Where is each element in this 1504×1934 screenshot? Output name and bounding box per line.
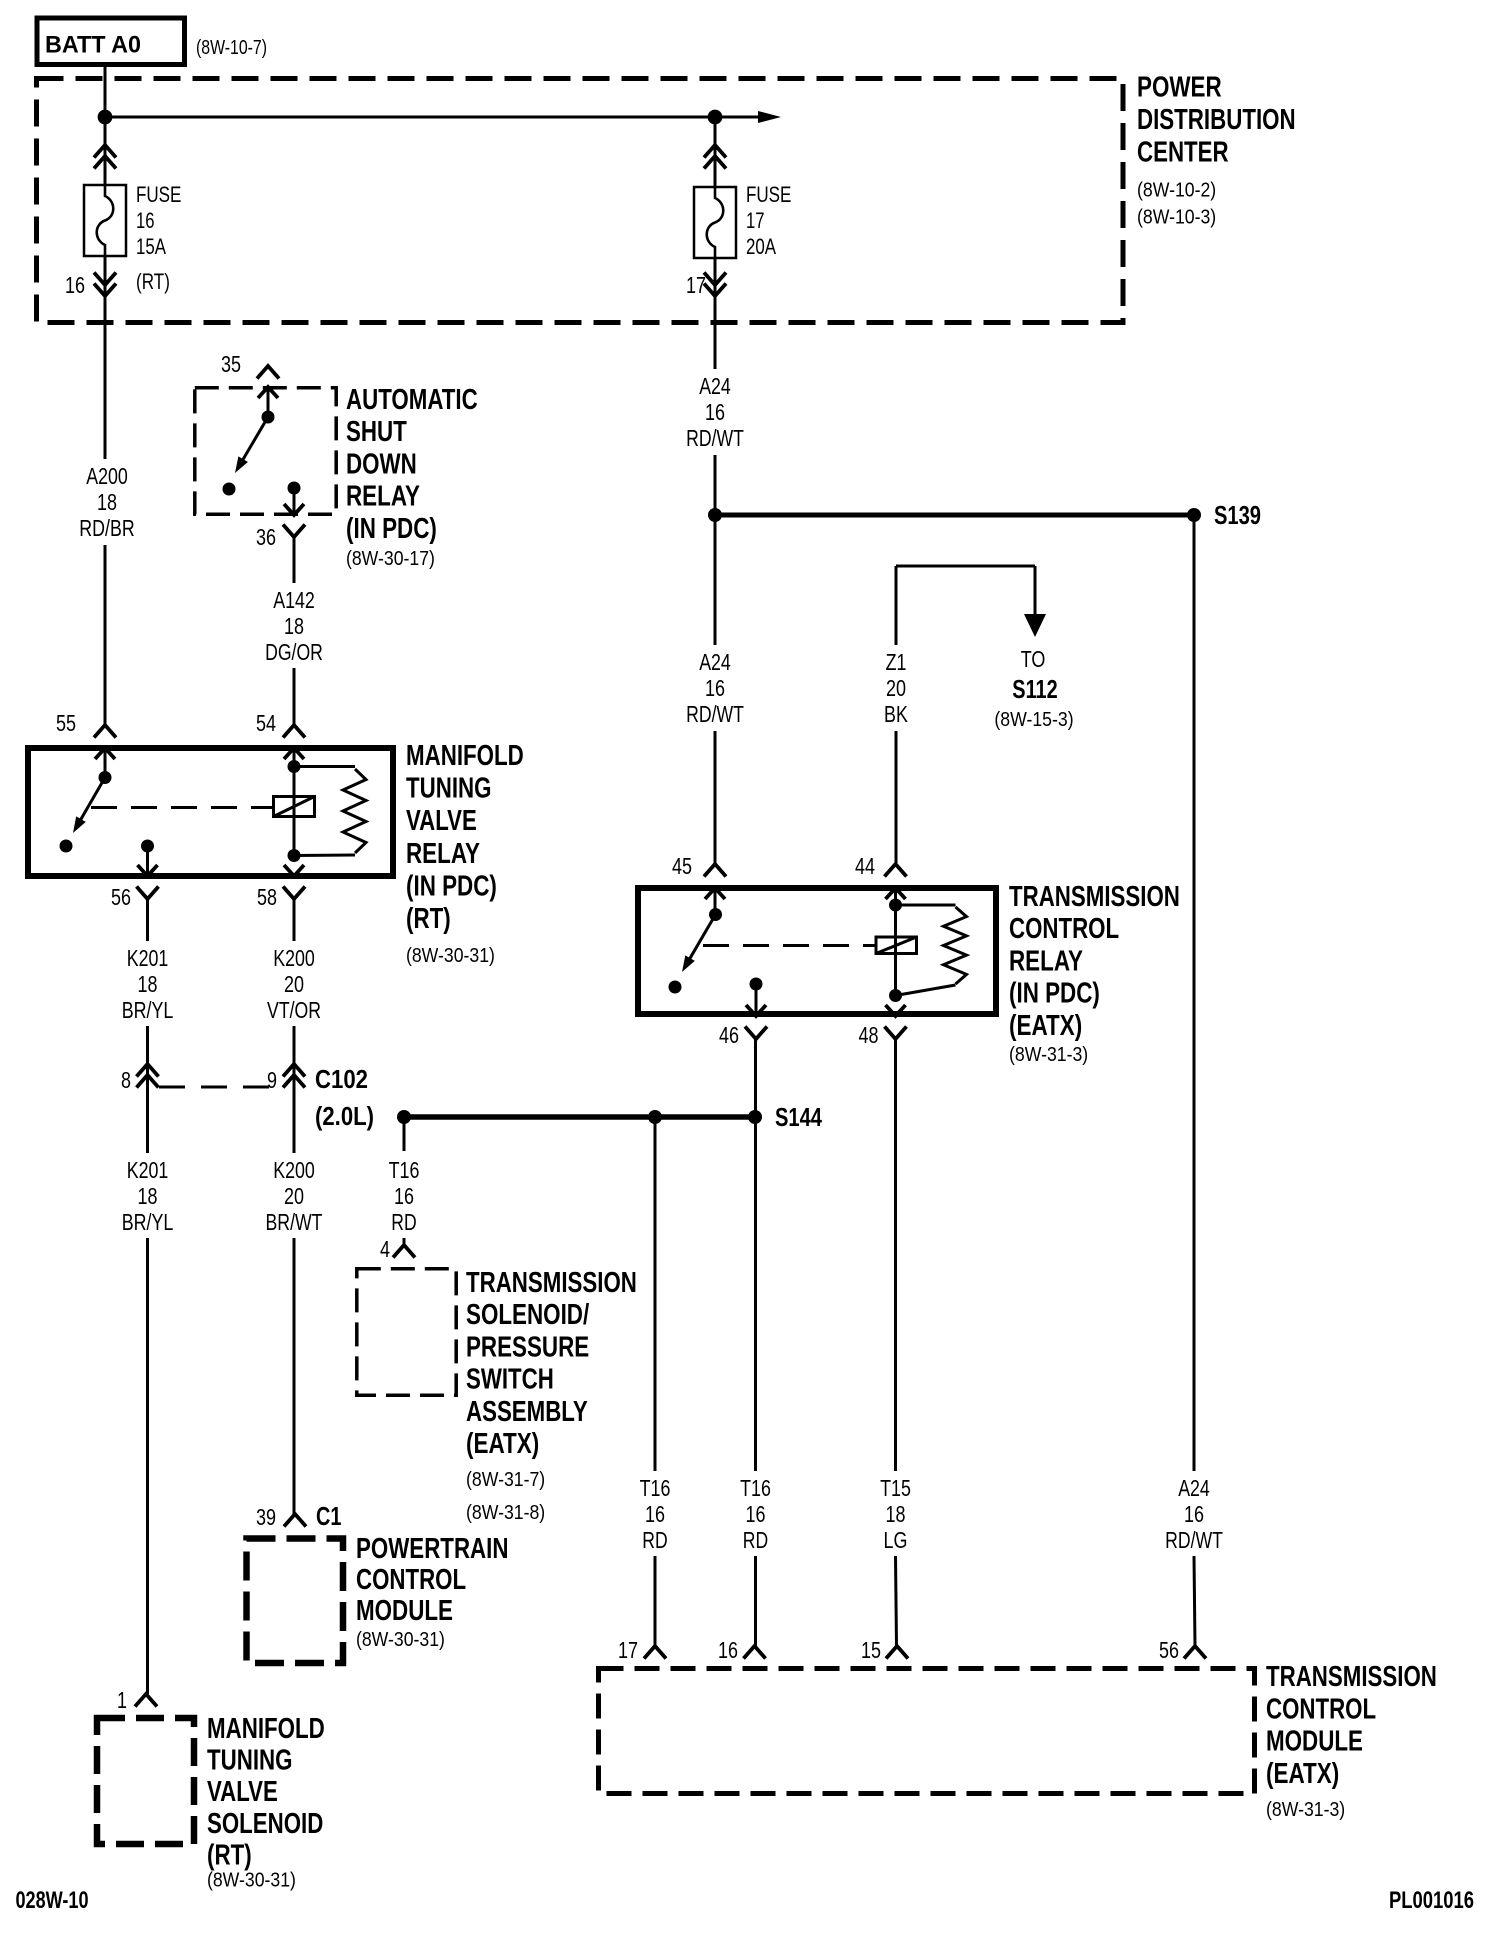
svg-text:A142: A142 bbox=[273, 587, 315, 613]
connector chevrons above fuse 17 bbox=[704, 145, 726, 158]
svg-text:BK: BK bbox=[884, 701, 908, 727]
svg-text:LG: LG bbox=[884, 1527, 908, 1553]
connector chevrons below fuse 16, pin 16 bbox=[104, 256, 107, 459]
pin 56 connector below MTV bbox=[137, 887, 159, 900]
svg-text:16: 16 bbox=[746, 1501, 766, 1527]
wire T16 stub to solenoid assembly bbox=[403, 1117, 406, 1151]
pin 36 connector below ASD bbox=[283, 525, 305, 538]
svg-text:A24: A24 bbox=[699, 649, 731, 675]
svg-text:20: 20 bbox=[886, 675, 906, 701]
ASD pin 36 terminal bbox=[288, 482, 301, 495]
svg-text:36: 36 bbox=[256, 524, 276, 550]
svg-text:K201: K201 bbox=[127, 1157, 169, 1183]
svg-text:028W-10: 028W-10 bbox=[16, 1887, 89, 1914]
svg-text:(2.0L): (2.0L) bbox=[315, 1101, 374, 1131]
svg-text:(8W-30-31): (8W-30-31) bbox=[406, 945, 495, 967]
svg-text:BR/YL: BR/YL bbox=[122, 997, 174, 1023]
TC pin 45 terminal bbox=[705, 888, 725, 899]
svg-text:20: 20 bbox=[284, 1183, 304, 1209]
TC switch lower contact bbox=[669, 981, 682, 994]
svg-text:(8W-31-7): (8W-31-7) bbox=[466, 1469, 545, 1491]
svg-text:DISTRIBUTION: DISTRIBUTION bbox=[1137, 104, 1296, 136]
svg-text:MANIFOLD: MANIFOLD bbox=[207, 1713, 325, 1745]
ASD switch arm bbox=[238, 417, 268, 468]
svg-text:(EATX): (EATX) bbox=[1009, 1010, 1082, 1042]
connector C102 pin 8 bbox=[137, 1064, 159, 1077]
node S144 right bbox=[748, 1110, 762, 1124]
MTV switch lower contact bbox=[60, 840, 73, 853]
svg-text:18: 18 bbox=[97, 489, 117, 515]
svg-text:PRESSURE: PRESSURE bbox=[466, 1331, 589, 1363]
svg-text:1: 1 bbox=[117, 1687, 127, 1713]
svg-text:CONTROL: CONTROL bbox=[356, 1564, 466, 1596]
svg-text:(8W-31-3): (8W-31-3) bbox=[1009, 1044, 1088, 1066]
svg-text:16: 16 bbox=[1184, 1501, 1204, 1527]
svg-text:MODULE: MODULE bbox=[356, 1595, 453, 1627]
svg-text:MODULE: MODULE bbox=[1266, 1726, 1363, 1758]
svg-text:RD/WT: RD/WT bbox=[1165, 1527, 1223, 1553]
svg-text:(8W-30-31): (8W-30-31) bbox=[356, 1629, 445, 1651]
svg-text:T16: T16 bbox=[640, 1475, 671, 1501]
C102 mating dashed line bbox=[159, 1086, 282, 1089]
Powertrain Control Module dashed box bbox=[247, 1539, 344, 1664]
pin 58 connector below MTV bbox=[283, 887, 305, 900]
svg-text:18: 18 bbox=[886, 1501, 906, 1527]
Manifold Tuning Valve relay box bbox=[28, 748, 393, 876]
svg-text:(RT): (RT) bbox=[406, 903, 451, 935]
node at battery bus bbox=[98, 110, 113, 125]
svg-text:C1: C1 bbox=[316, 1501, 341, 1531]
ASD relay dashed box bbox=[195, 388, 336, 514]
splice S139 bbox=[708, 508, 722, 522]
pin 4 connector bbox=[393, 1245, 415, 1258]
ASD pin 35 terminal bbox=[258, 387, 278, 398]
arrow continuation right bbox=[758, 111, 781, 123]
svg-text:K200: K200 bbox=[273, 945, 315, 971]
svg-text:BATT A0: BATT A0 bbox=[45, 32, 141, 59]
svg-text:16: 16 bbox=[718, 1637, 738, 1663]
wire A200 to MTV relay pin 55 bbox=[104, 545, 107, 725]
connector C102 pin 9 bbox=[283, 1064, 305, 1077]
svg-text:K200: K200 bbox=[273, 1157, 315, 1183]
TC pin 48 terminal bbox=[886, 1005, 906, 1016]
svg-text:BR/YL: BR/YL bbox=[122, 1209, 174, 1235]
svg-text:56: 56 bbox=[111, 884, 131, 910]
svg-text:56: 56 bbox=[1159, 1637, 1179, 1663]
svg-text:(8W-30-31): (8W-30-31) bbox=[207, 1869, 296, 1891]
svg-text:AUTOMATIC: AUTOMATIC bbox=[346, 384, 478, 416]
svg-text:(8W-10-7): (8W-10-7) bbox=[196, 37, 267, 59]
svg-text:BR/WT: BR/WT bbox=[266, 1209, 323, 1235]
svg-text:18: 18 bbox=[284, 613, 304, 639]
TC coil link dashed bbox=[703, 944, 875, 947]
svg-text:44: 44 bbox=[855, 853, 875, 879]
TC coil suppression resistor bbox=[896, 904, 956, 907]
Transmission Control Module dashed box bbox=[599, 1669, 1255, 1794]
svg-text:CONTROL: CONTROL bbox=[1266, 1693, 1376, 1725]
svg-text:RELAY: RELAY bbox=[346, 481, 420, 513]
svg-text:(IN PDC): (IN PDC) bbox=[1009, 978, 1100, 1010]
svg-text:MANIFOLD: MANIFOLD bbox=[406, 740, 524, 772]
MTV relay coil bbox=[274, 797, 315, 817]
wire pin46 down through S144 to TCM pin 16 bbox=[754, 1039, 757, 1471]
svg-text:POWER: POWER bbox=[1137, 72, 1222, 104]
svg-text:15A: 15A bbox=[136, 234, 166, 259]
MTV coil suppression resistor bbox=[294, 765, 355, 768]
svg-text:(8W-10-2): (8W-10-2) bbox=[1137, 180, 1216, 202]
wire from fuse 17 down bbox=[714, 117, 717, 187]
svg-text:A200: A200 bbox=[86, 463, 128, 489]
svg-text:16: 16 bbox=[645, 1501, 665, 1527]
svg-text:4: 4 bbox=[380, 1236, 390, 1262]
wire K200 upper bbox=[293, 899, 296, 941]
pin 46 connector below TC relay bbox=[745, 1027, 767, 1040]
wire A24 from S139 to TCM pin 56 bbox=[1193, 515, 1196, 1471]
connector chevrons below fuse 17, pin 17 bbox=[714, 258, 717, 369]
TC pin 46 terminal bbox=[750, 978, 763, 991]
svg-text:(EATX): (EATX) bbox=[1266, 1758, 1339, 1790]
MTV switch arm bbox=[76, 778, 105, 828]
arrow to S112 bbox=[1024, 614, 1046, 637]
svg-text:RD/BR: RD/BR bbox=[79, 515, 134, 541]
svg-text:CENTER: CENTER bbox=[1137, 137, 1229, 169]
MTV pin 54 terminal bbox=[284, 748, 304, 759]
wire T15 pin48 to TCM pin 15 bbox=[894, 1039, 897, 1471]
ASD switch lower contact bbox=[223, 483, 236, 496]
splice S144 bus bbox=[404, 1114, 755, 1120]
svg-text:K201: K201 bbox=[127, 945, 169, 971]
TC switch arm bbox=[685, 915, 715, 967]
svg-text:17: 17 bbox=[618, 1637, 638, 1663]
svg-text:16: 16 bbox=[705, 675, 725, 701]
svg-text:20A: 20A bbox=[746, 234, 776, 259]
MTV coil link dashed bbox=[91, 806, 272, 809]
fuse F16 bbox=[84, 185, 126, 256]
wire K201 upper bbox=[146, 899, 149, 941]
pin 1 connector bbox=[135, 1694, 157, 1707]
node T16 left bbox=[397, 1110, 411, 1124]
svg-text:POWERTRAIN: POWERTRAIN bbox=[356, 1533, 509, 1565]
svg-text:RD/WT: RD/WT bbox=[686, 701, 744, 727]
svg-text:54: 54 bbox=[256, 710, 276, 736]
node above fuse 17 bbox=[708, 110, 723, 125]
svg-text:9: 9 bbox=[267, 1067, 277, 1093]
svg-text:(RT): (RT) bbox=[136, 269, 170, 294]
svg-text:(8W-30-17): (8W-30-17) bbox=[346, 548, 435, 570]
svg-text:RD: RD bbox=[391, 1209, 416, 1235]
svg-text:(8W-10-3): (8W-10-3) bbox=[1137, 207, 1216, 229]
svg-text:FUSE: FUSE bbox=[136, 182, 181, 207]
svg-text:A24: A24 bbox=[699, 373, 731, 399]
svg-text:SHUT: SHUT bbox=[346, 416, 407, 448]
MTV pin 56 terminal bbox=[141, 840, 154, 853]
svg-text:SOLENOID/: SOLENOID/ bbox=[466, 1299, 589, 1331]
svg-text:35: 35 bbox=[221, 351, 241, 377]
svg-text:16: 16 bbox=[65, 272, 85, 298]
pin 48 connector below TC relay bbox=[885, 1027, 907, 1040]
Power Distribution Center dashed box bbox=[37, 79, 1124, 323]
svg-text:VALVE: VALVE bbox=[207, 1776, 278, 1808]
fuse F17 bbox=[694, 187, 736, 258]
MTV pin 55 terminal bbox=[95, 748, 115, 759]
pin 39 connector C1 bbox=[284, 1514, 306, 1527]
TCM pin 15 connector bbox=[886, 1646, 908, 1659]
svg-text:S112: S112 bbox=[1012, 674, 1057, 704]
svg-text:45: 45 bbox=[672, 853, 692, 879]
svg-text:S144: S144 bbox=[775, 1102, 822, 1132]
svg-text:(IN PDC): (IN PDC) bbox=[406, 870, 497, 902]
svg-text:(8W-15-3): (8W-15-3) bbox=[994, 709, 1073, 731]
svg-text:RELAY: RELAY bbox=[1009, 945, 1083, 977]
svg-text:T16: T16 bbox=[389, 1157, 420, 1183]
battery feed box BATT A0 bbox=[37, 18, 185, 65]
TCM pin 56 connector bbox=[1184, 1646, 1206, 1659]
wire Z1 to ground splice bbox=[895, 566, 898, 645]
svg-text:46: 46 bbox=[719, 1022, 739, 1048]
svg-text:A24: A24 bbox=[1178, 1475, 1210, 1501]
node S144 middle bbox=[648, 1110, 662, 1124]
MTV pin 58 terminal bbox=[284, 865, 304, 876]
svg-text:DG/OR: DG/OR bbox=[265, 639, 323, 665]
connector chevrons above fuse 16 bbox=[94, 145, 116, 158]
svg-text:RD/WT: RD/WT bbox=[686, 425, 744, 451]
svg-text:17: 17 bbox=[746, 208, 765, 233]
Transmission Solenoid assembly dashed box bbox=[357, 1269, 456, 1395]
Transmission Control relay box bbox=[638, 888, 996, 1014]
svg-text:VALVE: VALVE bbox=[406, 805, 477, 837]
svg-text:TRANSMISSION: TRANSMISSION bbox=[1009, 881, 1180, 913]
svg-text:16: 16 bbox=[136, 208, 155, 233]
svg-text:SWITCH: SWITCH bbox=[466, 1364, 554, 1396]
TC pin 44 terminal bbox=[886, 888, 906, 899]
svg-text:18: 18 bbox=[138, 1183, 158, 1209]
svg-text:(IN PDC): (IN PDC) bbox=[346, 513, 437, 545]
svg-text:TRANSMISSION: TRANSMISSION bbox=[1266, 1661, 1437, 1693]
svg-text:RELAY: RELAY bbox=[406, 838, 480, 870]
svg-text:SOLENOID: SOLENOID bbox=[207, 1808, 323, 1840]
TCM pin 17 connector bbox=[644, 1646, 666, 1659]
svg-text:C102: C102 bbox=[315, 1064, 368, 1094]
svg-text:T16: T16 bbox=[740, 1475, 771, 1501]
svg-text:16: 16 bbox=[705, 399, 725, 425]
svg-text:ASSEMBLY: ASSEMBLY bbox=[466, 1396, 588, 1428]
wire A142 bbox=[293, 537, 296, 583]
svg-text:16: 16 bbox=[394, 1183, 414, 1209]
svg-text:TRANSMISSION: TRANSMISSION bbox=[466, 1267, 637, 1299]
wire battery bus horizontal bbox=[105, 116, 768, 119]
svg-text:S139: S139 bbox=[1214, 500, 1261, 530]
svg-text:TUNING: TUNING bbox=[406, 773, 492, 805]
svg-text:(8W-31-3): (8W-31-3) bbox=[1266, 1799, 1345, 1821]
wire from BATT A0 down through fuse 16 bbox=[104, 67, 107, 185]
svg-text:18: 18 bbox=[138, 971, 158, 997]
TCM pin 16 connector bbox=[744, 1646, 766, 1659]
svg-text:FUSE: FUSE bbox=[746, 182, 791, 207]
svg-text:PL001016: PL001016 bbox=[1389, 1887, 1474, 1914]
svg-text:(EATX): (EATX) bbox=[466, 1428, 539, 1460]
svg-text:(8W-31-8): (8W-31-8) bbox=[466, 1502, 545, 1524]
wire S144 to TCM pin 17 bbox=[654, 1117, 657, 1471]
svg-text:CONTROL: CONTROL bbox=[1009, 913, 1119, 945]
svg-text:(RT): (RT) bbox=[207, 1839, 252, 1871]
svg-text:T15: T15 bbox=[880, 1475, 911, 1501]
svg-text:20: 20 bbox=[284, 971, 304, 997]
svg-text:8: 8 bbox=[121, 1067, 131, 1093]
svg-text:39: 39 bbox=[256, 1504, 276, 1530]
svg-text:17: 17 bbox=[686, 272, 706, 298]
svg-text:DOWN: DOWN bbox=[346, 448, 417, 480]
svg-text:58: 58 bbox=[257, 884, 277, 910]
svg-text:48: 48 bbox=[859, 1022, 879, 1048]
svg-text:RD: RD bbox=[743, 1527, 768, 1553]
svg-text:15: 15 bbox=[861, 1637, 881, 1663]
TC relay coil bbox=[876, 937, 917, 954]
svg-text:TO: TO bbox=[1021, 646, 1046, 672]
svg-text:55: 55 bbox=[56, 710, 76, 736]
svg-text:RD: RD bbox=[642, 1527, 667, 1553]
svg-text:Z1: Z1 bbox=[886, 649, 907, 675]
Manifold Tuning Valve solenoid dashed box bbox=[97, 1718, 194, 1844]
svg-text:TUNING: TUNING bbox=[207, 1745, 293, 1777]
svg-text:VT/OR: VT/OR bbox=[267, 997, 321, 1023]
